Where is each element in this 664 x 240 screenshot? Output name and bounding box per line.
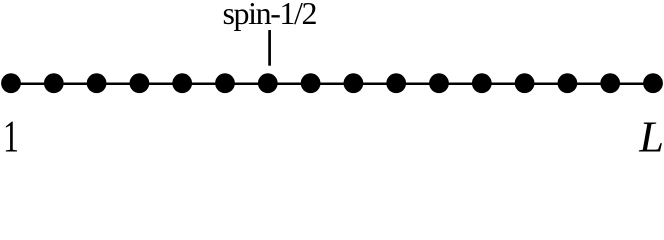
node site 1 [1,73,21,93]
label site index 1 [3,112,19,162]
node site 7 (spin-1/2) [258,73,278,93]
node site 5 [172,73,192,93]
svg-text:L: L [638,112,664,159]
node site 10 [386,73,406,93]
svg-text:spin-1/2: spin-1/2 [223,0,318,31]
node site 14 [558,73,578,93]
node site 4 [130,73,150,93]
wire: chain line [11,83,653,86]
node site 16 [643,73,663,93]
node site 13 [515,73,535,93]
node site 8 [301,73,321,93]
node site 12 [472,73,492,93]
wire: pointer line to spin site [268,30,271,66]
node site 11 [429,73,449,93]
node site 6 [215,73,235,93]
node site 2 [44,73,64,93]
node site 15 [600,73,620,93]
node site 3 [87,73,107,93]
node site 9 [344,73,364,93]
svg-text:1: 1 [3,112,19,159]
